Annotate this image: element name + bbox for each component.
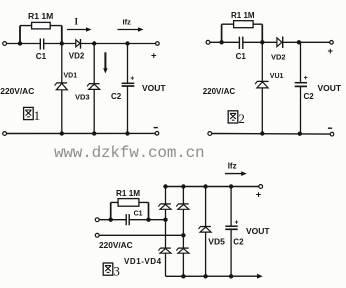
wire: fig1 bottom rail xyxy=(7,132,156,134)
node: fig1 junction R1 right / VD1 top xyxy=(60,41,64,45)
svg-text:C1: C1 xyxy=(134,210,143,217)
node: fig3 row1 to bridge A xyxy=(163,218,167,222)
svg-text:R1 1M: R1 1M xyxy=(116,189,140,198)
wire: fig1 R1 leads xyxy=(20,26,62,44)
current arrow Ifz (fig1) xyxy=(118,17,144,32)
svg-text:I: I xyxy=(75,17,79,27)
wire: fig2 bottom rail xyxy=(212,133,331,136)
svg-text:+: + xyxy=(130,76,134,83)
svg-text:C1: C1 xyxy=(36,52,47,61)
node: fig2 VU1 bottom xyxy=(260,131,264,135)
node: fig3 row2 to bridge B xyxy=(181,233,185,237)
diode VD2 (fig3 bridge B top) xyxy=(176,204,189,209)
diode VD2 (fig1) xyxy=(69,39,85,60)
terminal: fig1 bottom-right output - xyxy=(154,128,159,136)
node: fig1 VD1 bottom xyxy=(60,131,64,135)
svg-text:VOUT: VOUT xyxy=(246,226,270,236)
current arrow Ifz (fig3) xyxy=(225,161,247,176)
node: fig2 junction R1 left xyxy=(219,40,223,44)
svg-text:C1: C1 xyxy=(236,52,247,61)
capacitor C2 (fig1) xyxy=(111,76,134,102)
svg-text:VOUT: VOUT xyxy=(142,83,166,93)
wire: fig3 R1 leads xyxy=(111,202,149,219)
terminal: fig2 bottom-left input xyxy=(208,132,212,136)
svg-text:+: + xyxy=(304,75,308,82)
node: fig3 rail bridge A xyxy=(163,184,167,188)
wire: fig2 R1 leads xyxy=(222,24,263,42)
terminal: fig3 output + xyxy=(256,185,263,201)
wire: fig2 C2 branch xyxy=(300,42,302,133)
svg-text:220V/AC: 220V/AC xyxy=(99,240,133,250)
capacitor C1 (fig2) xyxy=(239,37,242,49)
terminal: fig3 input bottom xyxy=(95,233,99,237)
wire: fig2 top rail xyxy=(210,41,330,43)
diode VD4 (fig3 bridge B bottom) xyxy=(176,248,189,253)
terminal: fig1 top-right output + xyxy=(151,42,159,62)
svg-text:1: 1 xyxy=(34,108,41,123)
svg-text:VD5: VD5 xyxy=(208,237,225,247)
node: fig1 junction C2 top xyxy=(125,41,129,45)
node: fig3 junction R1 right xyxy=(146,218,150,222)
capacitor C1 (fig1) xyxy=(40,39,43,50)
svg-text:+: + xyxy=(256,190,262,201)
svg-text:www.dzkfw.com.cn: www.dzkfw.com.cn xyxy=(54,144,204,162)
svg-text:VD2: VD2 xyxy=(271,52,286,61)
svg-text:Ifz: Ifz xyxy=(123,17,132,26)
zener diode VD3 (fig1) xyxy=(75,84,100,102)
svg-text:R1 1M: R1 1M xyxy=(231,11,255,20)
node: fig1 junction R1 left xyxy=(18,41,22,45)
diode VD2 (fig2) xyxy=(271,37,286,62)
resistor R1 (fig1) xyxy=(32,22,51,29)
label fig2 caption 图2 xyxy=(228,111,245,126)
svg-text:VD2: VD2 xyxy=(69,51,85,60)
node: fig3 bottom C2 xyxy=(229,274,233,278)
svg-text:+: + xyxy=(328,46,334,57)
svg-text:C2: C2 xyxy=(233,237,244,246)
svg-text:220V/AC: 220V/AC xyxy=(0,86,34,96)
wire: fig3 C2 branch xyxy=(230,187,232,277)
svg-text:C2: C2 xyxy=(304,92,315,101)
svg-text:VD1: VD1 xyxy=(64,73,78,80)
wire: fig2 VU1 branch xyxy=(261,42,263,133)
diode VD3 (fig3 bridge A bottom) xyxy=(158,248,171,253)
svg-text:VU1: VU1 xyxy=(270,73,284,80)
svg-text:+: + xyxy=(151,51,157,62)
terminal: fig2 top-left input xyxy=(206,40,210,44)
svg-text:220V/AC: 220V/AC xyxy=(203,87,236,96)
wire: fig3 bridge column B xyxy=(182,187,184,277)
svg-text:3: 3 xyxy=(113,263,120,278)
svg-text:VOUT: VOUT xyxy=(318,83,342,93)
label fig1 caption 图1 xyxy=(24,107,40,122)
node: fig3 bottom bridge B xyxy=(181,274,185,278)
capacitor C2 (fig2) xyxy=(295,75,315,101)
node: fig3 rail C2 xyxy=(229,184,233,188)
svg-text:R1 1M: R1 1M xyxy=(28,11,53,21)
wire: fig1 top rail xyxy=(7,43,156,45)
capacitor C2 (fig3) xyxy=(225,219,244,246)
terminal: fig3 bottom rail end xyxy=(257,274,263,279)
zener diode VU1 (fig2) xyxy=(255,73,283,88)
wire: fig3 input row 2 xyxy=(99,234,183,236)
wire: fig3 VD5 branch xyxy=(205,187,207,277)
terminal: fig3 input top xyxy=(95,218,99,222)
wire: fig1 VD1 branch xyxy=(61,44,63,134)
current arrow I vertical (fig1) xyxy=(103,52,107,73)
svg-text:C2: C2 xyxy=(111,92,122,101)
wire: fig1 VD3 branch xyxy=(93,44,95,134)
node: fig2 C2 bottom xyxy=(298,132,302,136)
terminal: fig1 bottom-left input xyxy=(3,132,7,136)
node: fig3 rail VD5 xyxy=(203,184,207,188)
svg-text:VD1-VD4: VD1-VD4 xyxy=(124,257,162,266)
current arrow I (fig1) xyxy=(67,17,92,32)
wire: fig3 bridge column A xyxy=(165,187,167,277)
wire: fig3 top output rail xyxy=(166,186,259,188)
node: fig3 bottom VD5 xyxy=(203,274,207,278)
resistor R1 (fig3) xyxy=(118,199,139,207)
terminal: fig1 top-left input xyxy=(3,42,7,46)
svg-text:+: + xyxy=(235,219,239,226)
terminal: fig2 top-right output + xyxy=(328,41,334,57)
node: fig2 junction R1 right / VU1 top xyxy=(260,40,264,44)
diode VD1 (fig1) xyxy=(55,73,78,90)
wire: fig3 bottom rail xyxy=(166,275,258,277)
svg-text:2: 2 xyxy=(238,111,245,126)
node: fig1 junction VD3 top xyxy=(92,41,96,45)
svg-text:VD3: VD3 xyxy=(75,93,90,102)
label fig3 caption 图3 xyxy=(103,263,120,278)
zener diode VD5 (fig3) xyxy=(199,227,226,247)
terminal: fig2 bottom-right output - xyxy=(328,128,334,136)
node: fig1 C2 bottom xyxy=(125,131,129,135)
node: fig3 rail bridge B xyxy=(181,184,185,188)
resistor R1 (fig2) xyxy=(234,21,254,28)
node: fig1 VD3 bottom xyxy=(92,131,96,135)
node: fig2 junction C2 top xyxy=(297,40,301,44)
node: fig3 junction R1 left xyxy=(109,218,113,222)
diode VD1 (fig3 bridge A top) xyxy=(158,204,171,209)
wire: fig3 input row 1 xyxy=(99,219,165,221)
wire: fig1 C2 branch xyxy=(127,44,129,134)
svg-text:Ifz: Ifz xyxy=(228,161,237,170)
capacitor C1 (fig3) xyxy=(126,214,129,225)
